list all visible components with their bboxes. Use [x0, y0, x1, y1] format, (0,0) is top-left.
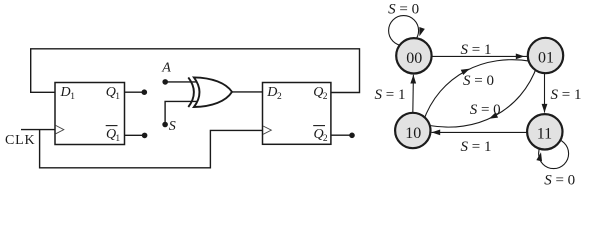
svg-text:CLK: CLK [5, 133, 35, 148]
svg-text:S = 0: S = 0 [463, 73, 494, 89]
state node 00 [396, 38, 431, 73]
arrowhead 11 to 10 [432, 130, 441, 136]
wire XOR output to D2 [232, 91, 263, 93]
wire Q2-bar stub [331, 133, 355, 139]
svg-text:S = 0: S = 0 [388, 2, 419, 18]
transition arc 00 self-loop [389, 16, 419, 46]
D flip-flop U2 box [263, 83, 331, 145]
arrowhead 00 self-loop [417, 27, 425, 37]
svg-text:A: A [161, 60, 171, 75]
wire feedback Q2 to D1 (top rail) [31, 49, 360, 93]
arrowhead 00 to 01 [516, 54, 525, 60]
svg-text:10: 10 [405, 125, 421, 142]
svg-text:S = 0: S = 0 [544, 173, 575, 189]
label D1 [60, 85, 76, 102]
label Q1 [106, 85, 121, 102]
svg-text:D: D [266, 85, 277, 100]
arrowhead 11 self-loop [536, 152, 543, 162]
svg-text:2: 2 [277, 92, 282, 102]
transition line 10 to 00 [412, 75, 415, 114]
node S [162, 119, 176, 134]
wire S to XOR [165, 101, 197, 124]
svg-text:00: 00 [406, 50, 422, 67]
arrowhead 01 to 11 [542, 104, 548, 113]
state node 01 [528, 38, 563, 73]
svg-text:2: 2 [323, 92, 328, 102]
node A [161, 60, 171, 84]
label D2 [266, 85, 282, 102]
state node 10 [395, 113, 430, 148]
D flip-flop U1 box [55, 83, 125, 145]
transition curve 01 to 10 [430, 65, 538, 127]
label Q1-bar [106, 126, 121, 144]
arrowhead 10 to 01 curve [461, 66, 471, 75]
wire A to XOR [165, 81, 197, 83]
transition line 11 to 10 [432, 131, 528, 133]
svg-text:11: 11 [537, 126, 552, 143]
label Q2 [313, 85, 328, 102]
label Q2-bar [313, 126, 328, 144]
wire CLK input [21, 129, 55, 131]
wire Q1-bar stub [125, 133, 148, 139]
transition curve 10 to 01 [423, 60, 531, 122]
svg-text:S = 1: S = 1 [375, 87, 406, 103]
transition arc 11 self-loop [539, 139, 569, 169]
arrowhead 01 to 10 curve [488, 112, 498, 121]
svg-text:1: 1 [115, 134, 120, 144]
svg-text:1: 1 [115, 92, 120, 102]
clock triangle U2 [263, 126, 271, 134]
svg-text:S = 0: S = 0 [470, 102, 501, 118]
XOR gate G1 [188, 77, 232, 107]
svg-text:2: 2 [323, 134, 328, 144]
wire CLK branch to FF2 clock (bottom rail) [40, 130, 263, 168]
state node 11 [527, 114, 562, 149]
transition line 00 to 01 [430, 55, 527, 57]
arrowhead 10 to 00 [410, 75, 416, 84]
svg-text:01: 01 [538, 50, 554, 67]
wire Q1 stub [125, 89, 148, 95]
svg-text:D: D [60, 85, 71, 100]
svg-text:S: S [169, 119, 176, 134]
clock triangle U1 [56, 125, 64, 133]
svg-text:1: 1 [70, 92, 75, 102]
svg-text:S = 1: S = 1 [461, 139, 492, 155]
svg-text:S = 1: S = 1 [461, 42, 492, 58]
svg-text:S = 1: S = 1 [551, 87, 582, 103]
transition line 01 to 11 [544, 72, 546, 113]
